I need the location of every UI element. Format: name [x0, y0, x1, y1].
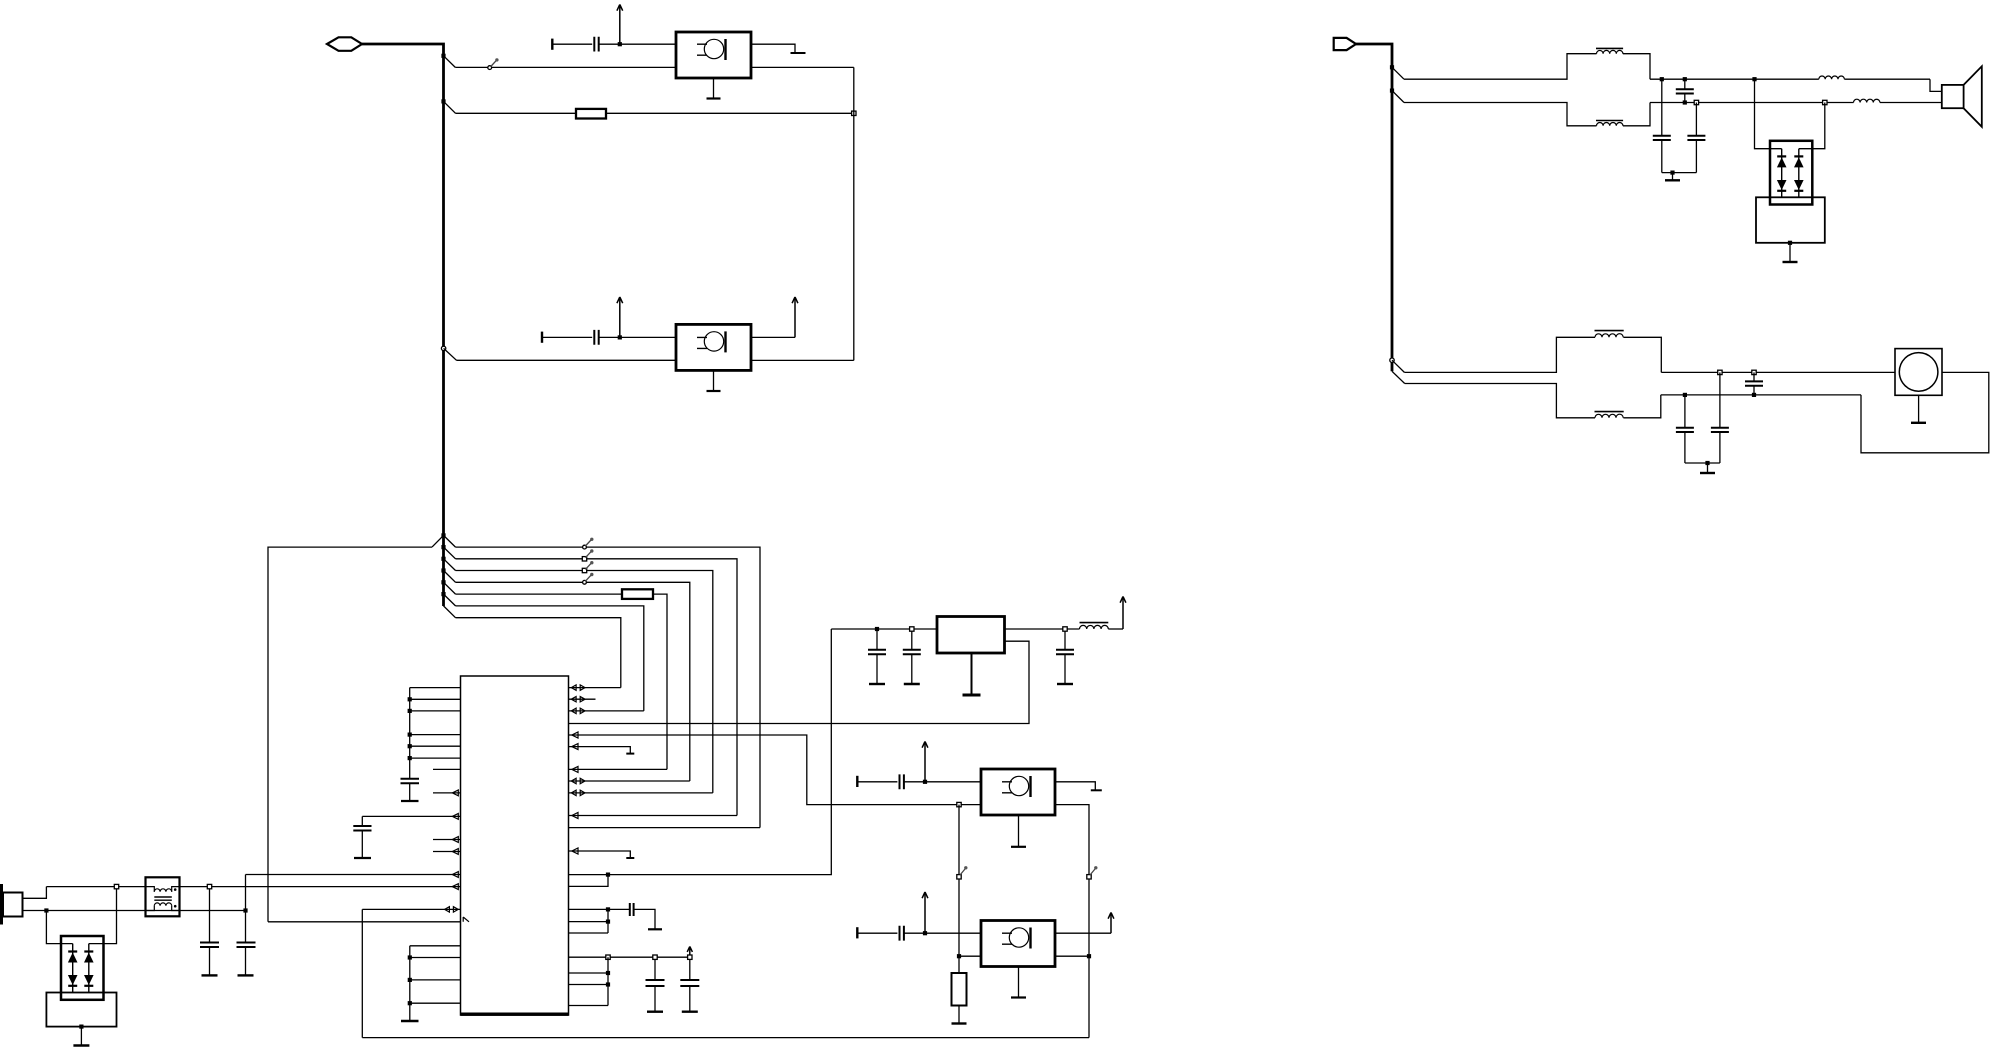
capacitor C18 series: [1745, 372, 1763, 395]
microphone MK2: [676, 324, 751, 370]
junction and vertical line-A: [243, 875, 247, 913]
terminal TP1: [551, 39, 553, 50]
wire jog row 887: [569, 875, 609, 887]
wire mic1 lower out: [751, 66, 854, 68]
ground C19 C20: [1685, 461, 1720, 473]
capacitor C3: [401, 688, 420, 801]
wire to diode array D2 right: [1799, 100, 1827, 148]
wire C12 to mic4: [904, 931, 981, 935]
bus entry to buzzer line1: [1390, 358, 1405, 372]
IC right pin row 973: [569, 971, 611, 975]
wire IC row 735 to mic3 lower: [569, 732, 982, 805]
choke FL2 top winding: [1404, 331, 1661, 373]
wire transformer to IC line-B: [180, 884, 212, 888]
wire jack bottom pin: [23, 908, 246, 912]
IC left pin row 946: [410, 945, 461, 947]
capacitor C11: [900, 774, 904, 789]
resistor R1: [576, 109, 606, 119]
bus entry to buzzer line2: [1392, 371, 1405, 383]
wire C1 to mic1: [599, 43, 676, 45]
IC left pin row 734: [408, 733, 461, 737]
wire line-B to IC row 886: [210, 884, 461, 890]
bus fanout junction dots: [441, 533, 445, 596]
resistor R3: [952, 956, 967, 1023]
switch SW4: [582, 561, 593, 573]
buzzer BZ1: [1895, 349, 1942, 396]
switch SW1: [488, 58, 499, 69]
wire vertical mic bias bus: [853, 67, 855, 360]
connector J2: [1334, 38, 1356, 50]
microphone MK1: [676, 32, 751, 78]
wire TP4 to C12: [857, 932, 897, 934]
capacitor C15 series: [1676, 79, 1694, 102]
IC right pin row 909 with capacitor C5: [569, 903, 663, 929]
wire bottom rail: [362, 1037, 1089, 1039]
wire line tip to transformer: [46, 886, 145, 888]
wire W1-left to IC row 922 with flag: [268, 917, 469, 922]
switch SW6: [957, 866, 968, 879]
wire W1 right: [456, 547, 761, 828]
choke FL2 bottom winding: [1405, 384, 1661, 418]
wire jack-low to diode array D1: [46, 911, 72, 944]
bus BUS2: [1356, 44, 1392, 371]
wire TP3 to C11: [857, 781, 897, 783]
inductor L2: [1854, 99, 1942, 102]
wire row 909 down to bottom rail: [361, 909, 363, 1037]
ground mic4: [1011, 967, 1026, 998]
transformer T1: [146, 877, 180, 916]
ground regulator: [963, 653, 981, 695]
switch SW2: [583, 538, 594, 549]
wire BZ1 return loop: [1861, 372, 1989, 452]
power arrow PWR1: [617, 5, 623, 45]
wire FL1 bottom out: [1650, 100, 1854, 104]
IC right pin row 746 to terminal: [569, 744, 635, 754]
wire line-B to diode array D1: [89, 884, 119, 943]
IC right pin row 957 rail: [569, 955, 693, 959]
wire C11 to mic3: [904, 780, 981, 784]
IC right pin row 699 bidir stub: [569, 697, 596, 702]
speaker SP1: [1942, 66, 1982, 127]
IC left pin row 746: [408, 744, 461, 748]
wire mic3 out to terminal T: [1055, 782, 1102, 791]
IC left pin row 758: [408, 756, 461, 760]
wire IC row 874 to regulator input: [569, 629, 832, 877]
IC right pin row 828: [569, 827, 761, 829]
wire mic2 out to power arrow: [751, 336, 795, 338]
IC U1: [461, 676, 569, 1015]
capacitor C14: [237, 911, 256, 976]
power arrow PWR3: [792, 297, 798, 337]
IC left pin row 1003: [408, 1001, 461, 1005]
capacitor C8: [868, 631, 886, 684]
terminal TP4: [856, 927, 858, 938]
IC left pin row 816 with capacitor C4: [353, 814, 460, 859]
wire jack top pin: [23, 887, 47, 899]
wire TP2 to C2: [542, 336, 592, 338]
bus BUS1: [362, 44, 444, 606]
diode array D1: [61, 936, 104, 1000]
IC right pin row 922: [569, 920, 611, 924]
wire mic4 out to power arrow: [1055, 932, 1111, 934]
ground mic3: [1011, 815, 1026, 847]
power arrow PWR2: [617, 297, 623, 337]
bus entry to speaker line2: [1390, 89, 1404, 103]
capacitor C10: [1056, 631, 1074, 684]
IC right pin row 781 bidir: [569, 778, 690, 783]
wire FL2 bottom out: [1661, 393, 1861, 397]
capacitor C1: [594, 37, 598, 52]
node dot at C2: [618, 335, 622, 339]
IC right pin row 851 to terminal: [569, 848, 635, 858]
power arrow PWR4: [687, 947, 692, 956]
junction mic3 lower-left: [957, 802, 961, 806]
power arrow PWR8: [1108, 913, 1114, 934]
capacitor C16: [1653, 79, 1671, 172]
IC right pin row 984: [569, 982, 611, 986]
diode array D1 lower box: [46, 993, 116, 1027]
wire R2 to IC: [653, 594, 667, 769]
inductor FB1: [1080, 623, 1124, 629]
diode array D2: [1770, 141, 1812, 205]
connector J3 jack: [0, 884, 23, 925]
wire FL2 top out: [1661, 370, 1895, 374]
wire mic4 lower-right: [1055, 954, 1091, 958]
IC right pin row 793 bidir: [569, 790, 713, 795]
node VCC dot at C1: [618, 42, 622, 46]
switch SW7: [1087, 866, 1098, 879]
IC left pin row 909 bidir: [362, 907, 460, 912]
choke FL1 bottom winding: [1404, 103, 1650, 126]
bus entry to mic2 line: [441, 346, 456, 360]
IC left pin row 688: [410, 687, 461, 689]
choke FL1 top winding: [1404, 48, 1650, 79]
IC left pin row 769: [433, 768, 461, 770]
ground mic1: [707, 78, 721, 99]
ground BZ1: [1911, 395, 1926, 423]
microphone MK4: [981, 921, 1055, 967]
IC right pin row 1005: [569, 957, 609, 1005]
ground C16 C17: [1662, 171, 1697, 181]
ground mic2: [707, 370, 721, 391]
wire R1 to node: [606, 112, 854, 114]
wire bus to mic2 lower pin: [457, 359, 677, 361]
capacitor C19: [1676, 395, 1694, 463]
wire L1 to speaker: [1930, 79, 1942, 91]
wire regulator output: [1005, 627, 1080, 631]
switch SW5: [583, 573, 594, 584]
IC left pin row 711: [408, 709, 461, 713]
IC right pin row 711 bidir: [569, 708, 644, 713]
bus entry to resistor R1 line: [441, 99, 455, 113]
ground D1: [73, 1025, 89, 1046]
wire line-A to IC row 874: [246, 872, 461, 878]
regulator U2: [937, 617, 1005, 654]
wire W3: [456, 571, 713, 793]
IC right pin row 815: [569, 813, 738, 819]
IC right pin row 769: [569, 766, 668, 772]
capacitor C20: [1711, 372, 1729, 463]
IC left pin row 980: [408, 978, 461, 982]
power arrow PWR6: [922, 742, 928, 782]
capacitor C17: [1687, 103, 1705, 173]
wire mic4 lower-left: [957, 954, 981, 958]
wire W2: [456, 559, 738, 816]
power arrow PWR7: [922, 892, 928, 933]
inductor L1: [1819, 76, 1930, 79]
wire bus to mic1 lower pin: [455, 66, 676, 68]
wire W1 left branch: [268, 547, 432, 922]
wire FL1 top out: [1650, 77, 1819, 81]
capacitor C13: [200, 889, 219, 976]
diode array D2 lower box: [1756, 197, 1825, 243]
wire bus to R1: [456, 112, 577, 114]
wire W6: [456, 606, 644, 711]
wire mic2 lower out: [751, 359, 854, 361]
wire mic3 lower-right down: [1055, 805, 1089, 957]
junction node N1: [852, 111, 856, 115]
wire C2 to mic2: [599, 336, 676, 338]
IC left pin row 839: [433, 837, 461, 843]
power arrow PWR5: [1120, 597, 1126, 630]
wire IC row 723 to regulator pin2: [569, 641, 1030, 723]
wire mic4 right down to rail: [1088, 956, 1090, 1037]
IC right pin row 687 bidir: [569, 685, 621, 690]
terminal TP3: [856, 776, 858, 787]
capacitor C2: [594, 330, 598, 345]
resistor R2: [622, 589, 653, 599]
wire mic1 out to terminal T: [751, 44, 806, 53]
wire TP1 to C1: [552, 43, 592, 45]
IC left pin row 699: [408, 697, 461, 701]
wire mic3 lower-left down: [958, 805, 960, 957]
connector J1: [327, 37, 362, 51]
capacitor C7: [680, 959, 699, 1011]
ground GND-left pins: [401, 946, 419, 1021]
terminal TP2: [541, 332, 543, 343]
switch SW3: [582, 549, 593, 561]
bus entry to mic1 line: [441, 54, 455, 68]
wire W5 to R2: [456, 593, 623, 595]
wire regulator input: [831, 627, 937, 631]
capacitor C12: [900, 926, 904, 941]
IC left pin row 793: [433, 790, 461, 796]
wire W7: [456, 618, 621, 688]
capacitor C6: [646, 959, 665, 1011]
IC right pin row 933: [569, 909, 609, 933]
IC left pin row 851: [433, 849, 461, 855]
capacitor C9: [903, 631, 921, 684]
IC left pin row 958: [408, 955, 461, 959]
wire W4: [456, 582, 690, 781]
wire to diode array D2 left: [1755, 79, 1782, 149]
bus entry to speaker line1: [1390, 65, 1404, 79]
microphone MK3: [981, 769, 1055, 815]
ground D2: [1783, 241, 1798, 262]
bus entry diagonals fanout: [432, 535, 456, 617]
